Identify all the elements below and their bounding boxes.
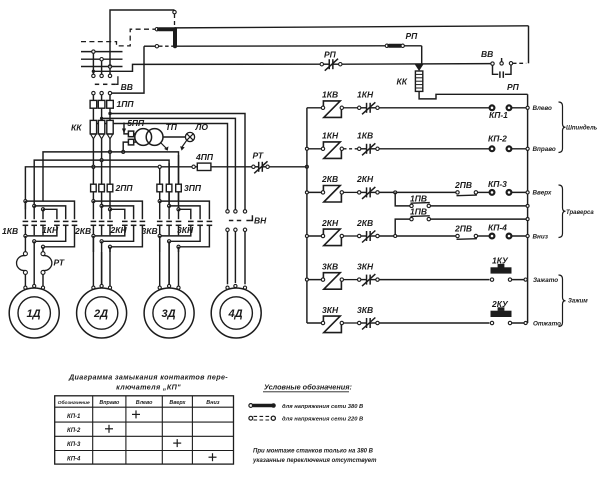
svg-text:Вниз: Вниз: [533, 233, 549, 240]
contact 2КВ pole 2: [101, 206, 103, 219]
wire 380V link bar vertical: [173, 29, 177, 46]
wire group3 to motor 3: [159, 236, 161, 286]
fuse 2PP-a: [91, 184, 97, 192]
contact RT (breaking): [252, 165, 255, 168]
terminal box primary 1: [128, 131, 133, 137]
plus KP-4 vniz: [209, 456, 217, 458]
svg-text:3КН: 3КН: [357, 261, 374, 271]
contact 3КН pole 3: [207, 220, 213, 222]
wire control tap before BB: [92, 70, 95, 73]
wire 2КВ mains down: [92, 236, 94, 252]
brace Zazhim: [559, 275, 566, 327]
contact 3КВ pole 2: [168, 206, 170, 219]
fuse 1PP-a: [90, 100, 97, 108]
svg-text:3КВ: 3КВ: [322, 261, 338, 271]
relay KK triangle b: [99, 134, 105, 139]
wire 1PV lower to rail: [431, 218, 528, 220]
wire 2КН return inner: [93, 226, 124, 236]
svg-text:РП: РП: [324, 50, 337, 60]
motor 2D terminals: [92, 286, 95, 289]
wire group2 mains down: [92, 236, 94, 252]
wire RT to control rail: [269, 166, 307, 168]
svg-text:КП-1: КП-1: [67, 414, 81, 420]
wire group3 feeders: [168, 163, 170, 184]
svg-text:1Д: 1Д: [26, 308, 40, 320]
wire 1PV upper branch: [395, 192, 410, 206]
wire 1КН bridge inner: [41, 208, 44, 211]
svg-text:КП-4: КП-4: [67, 456, 81, 462]
coil 2КН: [321, 234, 324, 237]
wire rung 2 mid: [344, 148, 358, 150]
svg-text:2КУ: 2КУ: [491, 299, 509, 309]
wire 2PV to KP-3: [478, 191, 490, 193]
motor 1D terminals: [24, 286, 27, 289]
node L2 phase line 2: [81, 58, 123, 60]
wire KK to RP coil line: [419, 91, 527, 99]
contact 1КВ pole 3: [42, 209, 44, 219]
coil 1КВ: [321, 106, 324, 109]
svg-text:3КН: 3КН: [322, 305, 339, 315]
contact 1PV upper: [410, 204, 413, 207]
coil 2КВ: [321, 191, 324, 194]
switch BH pole 1: [226, 210, 229, 213]
motor 1D: [9, 288, 59, 338]
motor 4D: [211, 288, 261, 338]
wire rung 1 to KP-1: [379, 107, 489, 109]
wire to BB aux: [342, 63, 491, 66]
relay RT heater left: [23, 252, 27, 256]
fuse 3PP-b: [166, 184, 172, 192]
svg-text:Условные обозначения:: Условные обозначения:: [264, 383, 352, 392]
svg-text:ВВ: ВВ: [121, 82, 133, 92]
svg-text:1КВ: 1КВ: [322, 90, 338, 100]
switch BB link bracket: [116, 76, 118, 84]
wire 380V link bar horizontal top: [155, 28, 158, 31]
node phase1-bus3: [92, 165, 95, 168]
wire rung 5 mid: [344, 279, 358, 281]
relay KK heater c: [107, 120, 113, 133]
relay KK triangle a: [91, 134, 97, 139]
svg-text:указанные переключения отсут: указанные переключения отсутствует: [252, 458, 377, 464]
svg-text:КК: КК: [71, 123, 82, 133]
svg-text:1КВ: 1КВ: [2, 226, 18, 236]
contact 3КН aux: [358, 278, 361, 281]
wire 1КН bridge middle: [33, 204, 36, 207]
svg-text:2КН: 2КН: [321, 218, 339, 228]
svg-text:Шпиндель: Шпиндель: [566, 126, 598, 132]
wire 2КН return outer: [110, 226, 142, 247]
switch BH pole 2: [234, 210, 237, 213]
wire fuses to KK: [92, 108, 94, 120]
terminal box primary 2: [128, 139, 133, 145]
svg-text:2КН: 2КН: [110, 225, 128, 235]
svg-text:1ПВ: 1ПВ: [410, 207, 427, 217]
wire 2КН bridge middle: [100, 204, 103, 207]
wire RP link to KK: [421, 46, 423, 65]
motor 3D: [144, 288, 194, 338]
switch BB aux: [491, 62, 494, 65]
svg-text:ключателя „КП": ключателя „КП": [116, 383, 181, 392]
svg-text:1КН: 1КН: [322, 131, 339, 141]
contact 1КН pole 2: [63, 220, 69, 222]
contact RP link (closing): [385, 44, 388, 47]
svg-text:ТП: ТП: [166, 122, 178, 132]
wire 1KU to rail: [512, 279, 528, 281]
svg-text:При монтаже станков только на: При монтаже станков только на 380 В: [253, 448, 374, 454]
wire secondary to lamp: [163, 136, 186, 138]
button 1KU: [491, 267, 512, 273]
wire rung 4 left: [307, 235, 323, 237]
contact 2PV upper: [456, 191, 459, 194]
wire BB pole3 to control line B: [112, 46, 144, 93]
wire rung 2 to KP-2: [379, 148, 489, 150]
wire rung 6 left: [307, 322, 323, 324]
wire tap to motor 4 line 1: [92, 122, 95, 125]
transformer TP winding 1: [135, 129, 152, 146]
svg-text:КП-4: КП-4: [488, 223, 507, 233]
contact 3КН pole 2: [197, 220, 203, 222]
node phase2-bus2: [100, 159, 103, 162]
svg-text:РТ: РТ: [54, 258, 65, 268]
brace Shpindel: [559, 102, 566, 153]
node L3 phase line 3: [81, 66, 123, 68]
wire KP-1 to rail: [512, 107, 528, 109]
svg-text:1КН: 1КН: [357, 90, 374, 100]
wire 3PP down: [159, 192, 161, 201]
contact 2КВ pole 3: [109, 209, 111, 219]
svg-text:РТ: РТ: [253, 151, 264, 161]
svg-text:КП-2: КП-2: [67, 428, 81, 434]
legend symbol 380V: [249, 404, 253, 408]
contact 3КН pole 1: [188, 220, 194, 222]
relay KK heater b: [98, 120, 104, 133]
svg-text:ВВ: ВВ: [481, 49, 493, 59]
wire BB to fuses: [92, 95, 94, 101]
wire rung 2 left: [307, 148, 323, 150]
wire 3КН return outer: [179, 226, 210, 247]
svg-text:2ПВ: 2ПВ: [454, 224, 472, 234]
plus KP-1 vlevo: [132, 413, 140, 415]
wire 3КН bridge inner: [177, 208, 180, 211]
wire 1КВ mains down: [24, 236, 26, 252]
contact 2КН aux: [358, 191, 361, 194]
svg-text:2Д: 2Д: [93, 308, 108, 320]
fuse 4PP: [192, 165, 195, 168]
svg-text:ЛО: ЛО: [195, 122, 209, 132]
relay KK control element: [415, 64, 424, 71]
wire 220V dashed link left: [81, 29, 155, 46]
node phase3-bus1: [108, 150, 111, 153]
svg-text:для напряжения сети 220 В: для напряжения сети 220 В: [282, 416, 363, 422]
transformer TP winding 2: [146, 129, 163, 146]
wire 3КВ mains down: [159, 236, 161, 252]
contact 2КН pole 1: [122, 220, 128, 222]
switch KP-4: [490, 234, 495, 239]
svg-text:Влево: Влево: [533, 105, 553, 112]
switch KP-2: [490, 146, 495, 151]
wire primary 2 to bus1: [123, 142, 128, 152]
svg-text:Отжато: Отжато: [533, 320, 561, 327]
plus KP-3 vverh: [173, 442, 181, 444]
svg-text:Диаграмма замыкания контакто: Диаграмма замыкания контактов пере-: [68, 373, 228, 382]
wire 1PV lower branch: [395, 219, 410, 236]
wire boxes to transformer: [134, 133, 137, 135]
switch KP-3: [490, 190, 495, 195]
wire bus 1: [43, 152, 179, 201]
wire dashed drop: [174, 14, 176, 27]
svg-text:2КН: 2КН: [356, 174, 374, 184]
svg-text:Обозначение: Обозначение: [58, 399, 90, 406]
brace Traversa: [559, 185, 566, 238]
table KP switch diagram: [55, 396, 234, 464]
wire rung 4 mid: [344, 235, 358, 237]
wire phase drops to BB: [92, 53, 94, 74]
relay KK triangle c: [107, 134, 113, 139]
wire RT to motor 1: [24, 274, 26, 286]
wire BB aux dashed to rail: [513, 62, 527, 64]
svg-text:Траверса: Траверса: [566, 210, 594, 216]
wire KK to buses: [92, 139, 94, 185]
motor 3D terminals: [158, 286, 161, 289]
wire tap to motor 4 line 3: [108, 112, 111, 115]
wire right rail top: [528, 26, 530, 64]
wire rung 6 to 2KU: [379, 322, 489, 324]
svg-text:2КВ: 2КВ: [321, 174, 338, 184]
contact 2КН pole 2: [131, 220, 137, 222]
node bus3 tap group3: [159, 167, 161, 185]
svg-text:Вправо: Вправо: [99, 400, 120, 406]
switch KP-1: [490, 105, 495, 110]
switch BB pole 1: [92, 74, 95, 77]
wire rung 5 left: [307, 279, 323, 281]
wire 2КН bridge outer: [92, 200, 95, 203]
fuse 3PP-c: [176, 184, 182, 192]
motor 4D terminals: [226, 286, 229, 289]
svg-text:КП-3: КП-3: [488, 179, 507, 189]
wire lamp arrow: [182, 140, 187, 147]
svg-text:1КН: 1КН: [42, 225, 59, 235]
svg-text:2ПВ: 2ПВ: [454, 180, 472, 190]
svg-text:КП-3: КП-3: [67, 442, 81, 448]
wire control line A to BB aux: [175, 26, 529, 28]
wire 2КН return middle: [102, 226, 134, 241]
wire rung 5 to 1KU: [379, 279, 489, 281]
wire rung 3 mid: [344, 191, 358, 193]
contact 1КН aux: [358, 106, 361, 109]
svg-text:РП: РП: [507, 82, 520, 92]
wire tap to motor 4 line 2: [100, 117, 103, 120]
svg-text:КК: КК: [397, 77, 408, 87]
fuse 2PP-c: [107, 184, 113, 192]
wire 2PP down: [92, 192, 94, 201]
svg-text:1КВ: 1КВ: [357, 131, 373, 141]
svg-text:2КВ: 2КВ: [74, 226, 91, 236]
svg-text:Зажим: Зажим: [568, 299, 588, 305]
svg-text:КП-1: КП-1: [489, 110, 508, 120]
legend symbol 220V: [249, 416, 253, 420]
wire bus 2: [34, 160, 169, 206]
wire right rail: [527, 94, 529, 323]
motor 2D: [77, 288, 127, 338]
contact 2КВ pole 1: [92, 201, 94, 219]
wire rung 4 to 2PV: [379, 235, 456, 237]
wire control line B: [175, 45, 387, 47]
svg-text:1ПВ: 1ПВ: [410, 194, 427, 204]
svg-text:Вниз: Вниз: [206, 400, 219, 406]
node L1 phase line 1: [81, 51, 123, 53]
contact 1КВ pole 2: [33, 206, 35, 219]
svg-text:2ПП: 2ПП: [115, 183, 134, 193]
svg-text:1КУ: 1КУ: [492, 256, 509, 266]
svg-text:Зажато: Зажато: [533, 277, 558, 284]
relay KK heater a: [90, 120, 96, 133]
contact 3КВ pole 3: [178, 209, 180, 219]
coil 1КН: [321, 147, 324, 150]
fuse 1PP-c: [107, 100, 114, 108]
switch BH pole 3: [243, 210, 246, 213]
fuse 1PP-b: [98, 100, 105, 108]
fuse 2PP-b: [99, 184, 105, 192]
contact 1КН pole 1: [54, 220, 60, 222]
svg-text:4ПП: 4ПП: [195, 152, 214, 162]
plus KP-2 vpravo: [105, 428, 113, 430]
svg-text:3КВ: 3КВ: [142, 226, 158, 236]
wire 2КН bridge inner: [108, 208, 111, 211]
switch BB pole 3: [108, 74, 111, 77]
wire 1КН return outer: [43, 226, 75, 247]
wire bus 3: [25, 167, 191, 210]
contact 1КВ pole 1: [24, 201, 26, 219]
wire left rail: [306, 108, 308, 323]
svg-text:3ПП: 3ПП: [184, 183, 202, 193]
switch BH bracket: [251, 215, 253, 220]
contact 2КН pole 3: [140, 220, 146, 222]
svg-text:3Д: 3Д: [161, 308, 175, 320]
wire 1PV upper to rail: [431, 205, 528, 207]
contact 3КВ aux: [358, 321, 361, 324]
wire rung 1 left: [307, 107, 323, 109]
fuse 3PP-a: [157, 184, 163, 192]
coil 3КВ: [321, 278, 324, 281]
switch BB pole 2: [100, 74, 103, 77]
svg-text:Вверх: Вверх: [533, 190, 552, 197]
svg-text:Вверх: Вверх: [169, 400, 186, 406]
wire voltage-link riser: [110, 10, 175, 67]
contact RP (breaking): [320, 62, 323, 65]
svg-text:ВН: ВН: [254, 216, 267, 226]
svg-text:2КВ: 2КВ: [356, 218, 373, 228]
wire 2KU to rail: [512, 322, 528, 324]
wire group2 to motor 2: [92, 252, 94, 286]
svg-text:Влево: Влево: [136, 400, 153, 406]
fuse 5PP arrow: [124, 123, 128, 134]
contact 2PV lower: [456, 234, 459, 237]
wire 1КН return middle: [34, 226, 65, 241]
wire 3КН bridge outer: [158, 200, 161, 203]
svg-text:3КН: 3КН: [177, 225, 194, 235]
wire 380V link bar lower terminal: [144, 45, 155, 47]
wire rung 1 mid: [344, 107, 358, 109]
wire rung 3 to 2PV: [379, 191, 456, 193]
wire 1КН bridge outer: [24, 200, 27, 203]
button 2KU: [491, 311, 512, 317]
svg-text:3КВ: 3КВ: [357, 305, 373, 315]
wire KP-3 to rail: [512, 191, 528, 193]
wire secondary arrow 1: [161, 143, 167, 149]
wire 2PV to KP-4: [478, 235, 490, 237]
contact 1PV lower: [410, 217, 413, 220]
wire KP-4 to rail: [512, 235, 528, 237]
svg-text:5ПП: 5ПП: [127, 118, 145, 128]
svg-text:РП: РП: [406, 31, 419, 41]
contact 2КВ aux: [358, 234, 361, 237]
svg-text:Вправо: Вправо: [533, 146, 556, 153]
wire 1КН return inner: [25, 226, 57, 236]
contact 3КВ pole 1: [159, 201, 161, 219]
contact 1КВ aux: [358, 147, 361, 150]
wire 3КН return inner: [160, 226, 191, 236]
svg-text:для напряжения сети 380 В: для напряжения сети 380 В: [282, 404, 363, 410]
node link terminal top: [173, 10, 176, 13]
wire 3КН return middle: [169, 226, 200, 241]
svg-text:1ПП: 1ПП: [117, 99, 135, 109]
svg-text:КП-2: КП-2: [488, 134, 507, 144]
wire rung 3 left: [307, 191, 323, 193]
coil 3КН: [321, 321, 324, 324]
svg-text:4Д: 4Д: [227, 308, 242, 320]
wire KP-2 to rail: [512, 148, 528, 150]
wire 3КН bridge middle: [168, 204, 171, 207]
wire rung 6 mid: [344, 322, 358, 324]
relay RT heater right: [41, 252, 45, 256]
lamp LO: [185, 132, 194, 141]
contact 1КН pole 3: [72, 220, 78, 222]
